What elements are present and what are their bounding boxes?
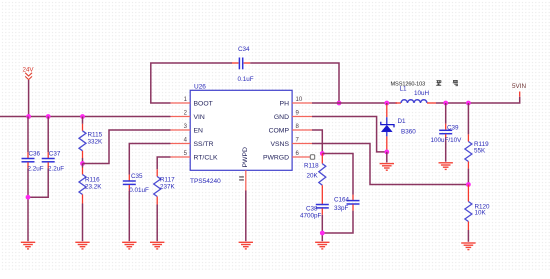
svg-text:TPS54240: TPS54240 (190, 178, 221, 185)
node junction COMP/R118/C164 (320, 151, 325, 156)
pin 4 SS/TR (171, 138, 214, 149)
ground below R120 (461, 243, 475, 250)
wire VSNS feedback (312, 144, 468, 185)
svg-text:237K: 237K (160, 184, 176, 191)
svg-text:C38: C38 (306, 205, 318, 212)
svg-text:MSS1260-103: MSS1260-103 (391, 81, 426, 87)
svg-text:0.1uF: 0.1uF (238, 76, 254, 83)
svg-text:PWRGD: PWRGD (263, 155, 289, 162)
diode D1 B360 (381, 103, 416, 152)
pin 2 VIN (171, 111, 205, 122)
capacitor C35 (123, 173, 149, 194)
wire C39 to ground (445, 141, 447, 162)
power port 24V (23, 67, 35, 80)
svg-text:R116: R116 (85, 177, 100, 184)
svg-text:BOOT: BOOT (194, 101, 213, 108)
ground below C39 (439, 163, 453, 170)
op-amp U26 TPS54240 body (190, 84, 292, 186)
pin 3 EN (171, 124, 204, 135)
svg-text:RT/CLK: RT/CLK (194, 155, 219, 162)
wire SS/TR branch (129, 144, 170, 175)
capacitor C37 (42, 117, 65, 173)
wire RT/CLK branch (157, 157, 170, 169)
wire BOOT loop left (151, 63, 232, 103)
svg-text:VSNS: VSNS (270, 141, 289, 148)
capacitor C39 (431, 103, 463, 144)
capacitor C34 (232, 46, 254, 83)
svg-text:EN: EN (194, 128, 204, 135)
svg-text:U26: U26 (194, 84, 206, 91)
resistor R120 (465, 185, 490, 231)
svg-text:2.2uF: 2.2uF (28, 166, 44, 173)
pin 6 PWRGD no-connect (263, 151, 315, 162)
wire D1 anode to ground (386, 152, 388, 163)
node junction D1 anode (384, 150, 389, 155)
power port 5VIN (512, 83, 526, 97)
inductor L1 (391, 81, 437, 103)
svg-text:R117: R117 (160, 177, 175, 184)
pin 11 PWPD (239, 147, 249, 190)
svg-text:10: 10 (296, 97, 303, 103)
ground below C36 (21, 242, 35, 249)
pin 8 COMP (269, 124, 312, 135)
svg-text:4700pF: 4700pF (300, 213, 322, 220)
wire C38 bottom to ground node (321, 215, 323, 241)
svg-text:C164: C164 (334, 196, 350, 203)
svg-text:COMP: COMP (269, 128, 290, 135)
wire C164 bottom to C38 node (322, 211, 353, 233)
pin 1 BOOT (171, 97, 213, 108)
label CJK model char 1 (xing) (436, 80, 441, 85)
resistor R117 (154, 169, 176, 204)
wire R117 to ground (156, 205, 158, 242)
svg-text:10uH: 10uH (414, 90, 430, 97)
wire pin11 to ground (245, 191, 247, 242)
svg-text:10K: 10K (475, 210, 487, 217)
node junction C34/PH (337, 101, 342, 106)
pin 10 PH (280, 97, 312, 108)
ground below R117 (150, 242, 164, 249)
node junction R119 (466, 101, 471, 106)
wire BOOT loop right to PH rail (250, 63, 339, 103)
svg-text:2.2uF: 2.2uF (48, 166, 64, 173)
wire EN branch (83, 130, 171, 164)
ground below C38 (315, 242, 329, 249)
svg-text:C34: C34 (238, 46, 250, 53)
wire 24V to bus (28, 80, 30, 117)
wire R116 to ground (82, 204, 84, 242)
svg-text:332K: 332K (88, 139, 104, 146)
svg-text:0.01uF: 0.01uF (129, 187, 149, 194)
node junction C38/C164 ground (320, 231, 325, 236)
svg-text:PWPD: PWPD (242, 147, 249, 167)
wire C164 branch (322, 154, 353, 195)
wire C37 bottom to C36 line (28, 168, 48, 197)
pin 5 RT/CLK (171, 151, 219, 162)
wire PH rail (312, 102, 397, 104)
wire main input bus (0, 116, 171, 118)
pin 9 GND (274, 111, 312, 122)
resistor R115 (79, 117, 103, 164)
pin 7 VSNS (270, 138, 312, 149)
resistor R119 (465, 103, 489, 185)
svg-text:B360: B360 (401, 129, 416, 136)
capacitor C164 (334, 195, 360, 212)
svg-text:23.2K: 23.2K (85, 184, 102, 191)
svg-text:24V: 24V (23, 67, 35, 74)
svg-text:55K: 55K (474, 148, 486, 155)
node junction C37 on bus (46, 114, 51, 119)
node junction D1 on rail (384, 101, 389, 106)
wire COMP branch (312, 130, 322, 154)
node junction C36/C37 (26, 195, 31, 200)
ground below R116 (75, 242, 89, 249)
node junction C39 (443, 101, 448, 106)
node junction 24V/C36 on bus (26, 114, 31, 119)
label CJK model char 2 (hao) (453, 80, 458, 85)
ground below pin 11 (239, 242, 253, 249)
svg-text:C36: C36 (29, 151, 41, 158)
wire L1 to 5VIN (436, 97, 520, 103)
capacitor C38 (300, 205, 329, 220)
wire C35 to ground (128, 191, 130, 241)
node junction R115 on bus (80, 114, 85, 119)
svg-text:GND: GND (274, 114, 289, 121)
ground below D1 (380, 164, 394, 171)
svg-text:SS/TR: SS/TR (194, 141, 214, 148)
resistor R116 (79, 164, 102, 204)
resistor R118 (304, 154, 326, 205)
node junction R115/R116/EN (80, 161, 85, 166)
wire R120 to ground (467, 230, 469, 242)
svg-text:20K: 20K (307, 173, 319, 180)
svg-text:R115: R115 (88, 132, 103, 139)
node junction R119/R120/VSNS (466, 182, 471, 187)
svg-text:5VIN: 5VIN (512, 83, 526, 90)
svg-text:VIN: VIN (194, 114, 205, 121)
svg-text:R118: R118 (304, 163, 319, 170)
svg-text:C37: C37 (49, 151, 61, 158)
svg-text:33pF: 33pF (334, 205, 349, 212)
svg-text:C35: C35 (131, 173, 143, 180)
wire C36 lower (27, 168, 29, 241)
svg-text:D1: D1 (398, 118, 407, 125)
svg-text:PH: PH (280, 101, 290, 108)
svg-text:C39: C39 (447, 124, 459, 131)
capacitor C36 (22, 117, 44, 173)
ground below C35 (122, 242, 136, 249)
wire GND pin9 to D1 anode (312, 117, 387, 152)
